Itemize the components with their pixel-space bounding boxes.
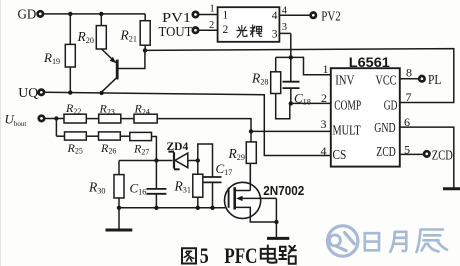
svg-text:R27: R27 [133, 142, 149, 157]
junction mosfet source [274, 220, 278, 224]
resistor R21 [120, 14, 151, 51]
svg-text:R23: R23 [99, 102, 115, 117]
svg-text:1: 1 [210, 3, 215, 14]
svg-text:R24: R24 [134, 102, 150, 117]
svg-text:VCC: VCC [376, 73, 397, 88]
wire pin4 to PV2 [279, 5, 310, 16]
svg-text:PV1: PV1 [162, 11, 191, 26]
svg-text:1: 1 [323, 62, 329, 76]
svg-text:MULT: MULT [333, 123, 362, 138]
resistor R24 [134, 102, 158, 124]
wire UQ to CS [45, 92, 331, 155]
svg-text:R26: R26 [100, 141, 116, 156]
resistor R30 [88, 161, 124, 208]
wire GND pin6 [400, 127, 454, 188]
junction R21 base node [143, 48, 147, 52]
resistor R31 [174, 161, 203, 208]
junction MULT node [249, 129, 253, 133]
wire row2 to ZD node [152, 137, 157, 161]
junction UQ-R19 [68, 90, 72, 94]
junction rail-C17 [210, 206, 214, 210]
wire R23-R24 [121, 118, 134, 120]
label guang-ou glyphs [237, 25, 262, 37]
svg-text:8: 8 [406, 66, 412, 80]
wire TOUT pin2 [199, 20, 218, 31]
svg-text:R28: R28 [251, 71, 268, 87]
junction Ubout [54, 116, 58, 136]
pin numbers L6561 right [404, 66, 412, 157]
svg-text:2: 2 [321, 91, 327, 105]
svg-text:1: 1 [223, 10, 229, 22]
op-amp U1 L6561 box [331, 54, 400, 166]
svg-text:INV: INV [335, 74, 354, 89]
svg-text:COMP: COMP [334, 99, 361, 114]
wire ZD4 rail [119, 160, 198, 162]
svg-text:R29: R29 [228, 146, 245, 162]
wire R22-R23 [86, 118, 98, 120]
svg-text:PL: PL [428, 73, 442, 88]
wire MULT [251, 130, 331, 132]
zener ZD4 [167, 141, 189, 170]
resistor R19 [43, 14, 75, 93]
junction rail-R30 [117, 206, 121, 210]
svg-text:CS: CS [333, 148, 347, 163]
resistor R27 [130, 132, 152, 156]
wire COMP [291, 102, 331, 104]
optocoupler U2 box [218, 7, 280, 42]
svg-text:R19: R19 [43, 50, 60, 66]
wire node to GD pin7 [145, 49, 454, 103]
capacitor C18 [283, 57, 311, 106]
node PL terminal [419, 73, 441, 88]
svg-text:PFC: PFC [224, 243, 257, 266]
resistor R23 [99, 102, 121, 124]
svg-text:3: 3 [321, 117, 327, 131]
svg-text:PV2: PV2 [321, 9, 341, 24]
resistor R20 [77, 14, 107, 49]
resistor R28 [251, 57, 290, 118]
svg-text:2: 2 [223, 24, 229, 36]
svg-text:L6561: L6561 [349, 54, 390, 70]
junction GD-R20 [99, 12, 103, 16]
watermark ri glyph [365, 233, 379, 250]
node TOUT terminal [159, 25, 199, 40]
svg-text:R22: R22 [65, 101, 81, 116]
svg-text:R30: R30 [88, 180, 105, 196]
junction R31 node [196, 158, 200, 162]
svg-text:3: 3 [282, 22, 287, 33]
capacitor C16 [130, 161, 167, 208]
wire row1 to MULT node [157, 119, 251, 132]
wire INV node rail [276, 57, 331, 74]
resistor R25 [65, 132, 87, 156]
svg-text:4: 4 [272, 10, 278, 22]
resistor R29 [228, 131, 257, 182]
svg-text:3: 3 [272, 28, 278, 40]
svg-text:2N7002: 2N7002 [263, 183, 304, 198]
svg-text:R25: R25 [67, 141, 83, 156]
mosfet Q2 2N7002 [225, 163, 305, 222]
junction rail-C16 [154, 206, 158, 210]
junction UQ-collector [99, 91, 103, 95]
wire VCC to PL [400, 78, 419, 80]
caption figure 5 [182, 248, 196, 263]
scan edge artifact [0, 0, 2, 266]
junction rail-R31 [196, 206, 200, 210]
svg-text:ZCD: ZCD [432, 148, 453, 163]
wire R25-R26 [86, 135, 98, 137]
capacitor C17 [204, 161, 233, 208]
wire PV1 pin1 [199, 3, 218, 14]
ground mosfet [267, 222, 289, 238]
node GD terminal [18, 8, 44, 23]
pin numbers L6561 left [321, 62, 329, 158]
wire R31node to C17 [198, 144, 213, 177]
svg-text:7: 7 [406, 90, 412, 104]
svg-text:2: 2 [209, 20, 214, 31]
svg-text:4: 4 [282, 5, 288, 16]
node Ubout terminal [5, 112, 45, 129]
svg-text:ZCD: ZCD [376, 145, 395, 160]
watermark logo ring [328, 226, 358, 256]
ground left [106, 208, 133, 230]
transistor Q1 [102, 49, 145, 92]
resistor R26 [99, 132, 121, 156]
svg-text:C16: C16 [130, 181, 147, 197]
node PV1 terminal [162, 11, 198, 26]
node PV2 terminal [311, 9, 341, 24]
svg-text:R20: R20 [77, 29, 94, 45]
wire bottom rail [119, 207, 229, 209]
svg-text:R31: R31 [174, 179, 191, 195]
svg-text:5: 5 [200, 243, 209, 266]
svg-text:UQ: UQ [18, 86, 38, 101]
watermark chen glyph [417, 230, 448, 253]
wire pin3 to INV node [279, 22, 290, 57]
wire R26-R27 [120, 135, 130, 137]
node UQ terminal [18, 86, 44, 101]
junction COMP node [289, 101, 293, 105]
svg-text:Ubout: Ubout [5, 112, 27, 129]
svg-text:R21: R21 [120, 28, 137, 44]
svg-text:C17: C17 [216, 161, 233, 177]
caption dian-lu glyphs [261, 245, 296, 263]
svg-text:4: 4 [321, 144, 327, 158]
ground right [443, 187, 460, 190]
wire GD rail [44, 13, 145, 15]
resistor R22 [64, 101, 86, 123]
svg-text:GD: GD [18, 8, 37, 23]
wire Ubout node [45, 118, 64, 120]
wire ZCD pin5 [400, 153, 424, 155]
watermark yue glyph [390, 232, 406, 252]
junction GD-R19 [68, 12, 72, 16]
wire row2 start [56, 135, 64, 137]
junction INV node [289, 55, 293, 59]
svg-text:GND: GND [374, 121, 395, 136]
svg-text:GD: GD [384, 99, 398, 114]
svg-text:TOUT: TOUT [159, 25, 193, 40]
junction ZD node [154, 158, 158, 162]
node ZCD terminal [424, 148, 453, 163]
